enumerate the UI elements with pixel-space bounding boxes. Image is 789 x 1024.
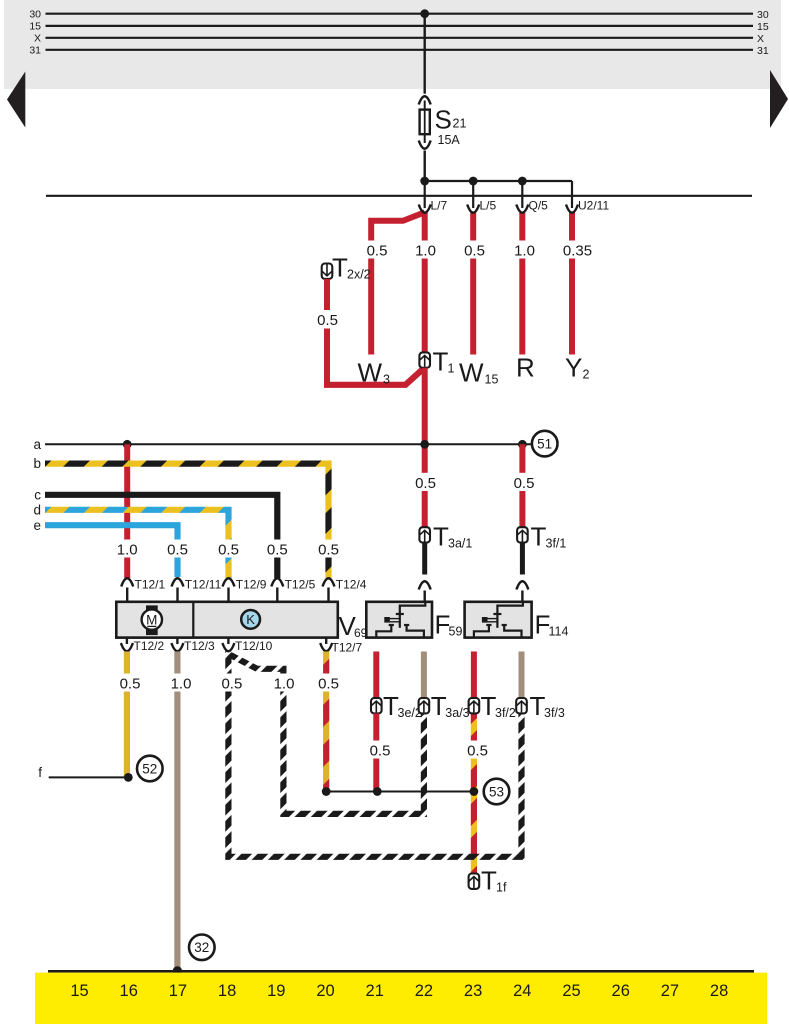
pin T12/5 [271,578,315,602]
pin T12/7 [320,638,362,655]
svg-text:0.5: 0.5 [514,475,535,492]
svg-text:0.5: 0.5 [318,542,339,559]
node ref 52 [137,756,163,782]
svg-text:0.5: 0.5 [317,312,338,329]
track band [35,973,767,1024]
label 0.5 T3f/2 [464,741,489,760]
svg-text:31: 31 [757,45,769,57]
wire red F59 to T3e/2 [373,652,379,699]
node a rail [33,437,531,452]
wire black T3f/1 to F114 [516,543,528,602]
connector T3f/1 [517,522,566,552]
svg-text:M: M [146,612,157,627]
wire red 0.5 node a to T3f/1 [519,444,525,527]
component W3 [358,358,391,388]
label 0.5 d [216,540,241,559]
label 0.5 T12/10 [218,674,243,693]
svg-text:U2/11: U2/11 [578,199,609,213]
svg-text:0.5: 0.5 [370,742,391,759]
svg-text:15A: 15A [438,133,461,147]
power rail band [4,0,781,89]
pin U2/11 [566,196,609,213]
svg-text:c: c [34,487,41,502]
svg-text:1.0: 1.0 [514,242,535,259]
wire red 0.5 T1 to T3a/1 [422,368,428,527]
svg-text:T12/2: T12/2 [134,639,165,653]
svg-text:0.5: 0.5 [267,542,288,559]
output transistor F114 [465,602,569,640]
svg-text:23: 23 [464,982,482,1000]
svg-text:T12/4: T12/4 [336,578,367,592]
svg-text:3f/2: 3f/2 [495,706,516,720]
output transistor F59 [366,602,462,640]
svg-text:0.5: 0.5 [467,742,488,759]
svg-text:3f/1: 3f/1 [546,537,567,551]
pin T12/11 [172,578,222,602]
pin L/7 [419,196,448,213]
wire red 1.0 node a to T12/1 [124,444,130,578]
wire c black [45,495,277,578]
svg-text:24: 24 [513,982,531,1000]
svg-text:21: 21 [366,982,384,1000]
svg-text:T12/3: T12/3 [184,639,215,653]
label 0.35 Y2 [562,241,593,260]
label 0.5 T12/2 [116,674,141,693]
connector T3a/3 [419,691,470,721]
svg-text:W: W [459,358,484,388]
connector T1 [419,347,454,377]
wire black-white 1.0 T12/10 to T3a/3 [228,651,424,814]
wire red 0.35 Y2 [569,212,575,355]
pin T12/2 [121,638,165,653]
connector T3e/2 [371,691,422,721]
svg-text:K: K [246,612,255,627]
bus 30 [29,9,769,22]
wire red 1.0 L/7 to T1 [422,212,428,353]
svg-text:T: T [332,253,348,283]
svg-text:0.5: 0.5 [415,475,436,492]
wire b black-yellow [45,464,329,578]
svg-text:59: 59 [449,625,463,639]
bus 31 [29,45,769,58]
label 1.0 [115,540,140,559]
svg-text:L/7: L/7 [431,199,448,213]
fuse S21 15A [419,96,467,181]
node ref 51 [532,431,558,457]
wire black T3a/1 to F59 [419,543,431,602]
svg-text:3a/3: 3a/3 [445,706,469,720]
svg-text:1: 1 [448,362,455,376]
svg-text:0.5: 0.5 [367,242,388,259]
svg-text:52: 52 [142,761,157,776]
svg-text:1f: 1f [496,881,507,895]
connector T3f/3 [516,691,565,721]
label 0.5 T12/7 [315,674,340,693]
svg-text:30: 30 [757,9,769,21]
svg-text:T12/9: T12/9 [236,578,267,592]
svg-text:26: 26 [612,982,630,1000]
svg-text:b: b [33,456,41,471]
pin T12/3 [171,638,215,653]
right continuation arrow [770,70,788,128]
wire red 0.5 T3e/2 down [373,713,379,791]
pin L/5 [467,196,496,213]
svg-text:1.0: 1.0 [117,542,138,559]
pin Q/5 [516,196,548,213]
svg-text:d: d [33,502,41,517]
svg-text:3a/1: 3a/1 [448,537,472,551]
svg-text:19: 19 [267,982,285,1000]
svg-text:T: T [433,522,449,552]
svg-text:0.5: 0.5 [221,675,242,692]
ground rail line [48,970,754,973]
svg-text:e: e [33,518,41,533]
svg-text:0.5: 0.5 [167,542,188,559]
connector T3a/1 [419,522,472,552]
connector T1f [469,866,507,896]
svg-text:20: 20 [316,982,334,1000]
label 0.5 e [165,540,190,559]
wire red 0.5 from T2x/2 [324,279,425,385]
svg-text:f: f [38,765,42,780]
pin T12/4 [323,578,367,602]
svg-text:T12/10: T12/10 [235,639,273,653]
node ref 32 [189,935,215,961]
svg-text:21: 21 [453,117,467,131]
svg-text:X: X [757,33,764,45]
svg-text:32: 32 [194,940,209,955]
svg-text:28: 28 [710,982,728,1000]
wire red-yellow T3f/2 to T1f [471,713,477,873]
connector T3f/2 [469,691,516,721]
svg-text:15: 15 [757,21,769,33]
wire red F114 to T3f/2 [471,652,477,699]
label 0.5 W15 [462,241,487,260]
svg-text:17: 17 [169,982,187,1000]
svg-text:T12/7: T12/7 [332,641,363,655]
pin T12/1 [121,578,165,602]
wire red 0.5 to W3 [371,212,425,354]
svg-text:1.0: 1.0 [415,242,436,259]
svg-text:Y: Y [565,353,582,383]
svg-text:R: R [516,353,535,383]
motor M symbol [142,605,162,635]
component Y2 [565,353,590,383]
svg-text:T12/1: T12/1 [135,578,166,592]
svg-text:3: 3 [383,373,390,387]
svg-text:51: 51 [537,436,552,451]
wire brown 1.0 T12/3 [174,652,180,971]
label 0.5 c [265,540,290,559]
svg-text:3f/3: 3f/3 [544,706,565,720]
wire from bus 30 to fuse [420,9,429,94]
wire d blue-yellow [45,510,229,578]
wire brown F59 to T3a/3 [421,652,427,699]
svg-text:2x/2: 2x/2 [347,268,371,282]
svg-text:0.5: 0.5 [464,242,485,259]
relay K symbol [241,610,260,629]
svg-text:T: T [433,347,449,377]
bus X [34,33,764,46]
svg-text:0.35: 0.35 [563,242,592,259]
left continuation arrow [7,72,25,128]
svg-text:T12/11: T12/11 [185,578,222,592]
svg-text:1.0: 1.0 [274,675,295,692]
label 0.5 T3e/2 [366,741,391,760]
svg-text:0.5: 0.5 [318,675,339,692]
svg-text:16: 16 [120,982,138,1000]
pin T12/9 [223,578,267,602]
label 1.0 T12/3 [167,674,192,693]
label 0.5 W3 [365,241,390,260]
label 0.5 [413,473,438,492]
svg-text:L/5: L/5 [480,199,497,213]
label 1.0 T12/10b [272,674,297,693]
svg-text:15: 15 [70,982,88,1000]
horizontal feed line [46,195,752,197]
label 0.5 [511,473,536,492]
wire black-white 0.5 T12/10 to T3f/3 [228,652,521,857]
svg-text:2: 2 [583,368,590,382]
node ref 53 [484,779,510,805]
wire red 0.5 W15 [470,212,476,355]
svg-text:W: W [358,358,383,388]
track numbers [70,982,728,1000]
svg-text:31: 31 [29,45,41,57]
label 0.5 b [316,540,341,559]
node f rail [38,765,132,782]
svg-text:114: 114 [549,625,569,639]
svg-text:a: a [33,437,41,452]
component W15 [459,358,498,388]
svg-text:53: 53 [489,784,504,799]
distribution node line [420,177,572,196]
svg-text:T12/5: T12/5 [285,578,316,592]
svg-text:Q/5: Q/5 [529,199,549,213]
svg-text:1.0: 1.0 [171,675,192,692]
label 1.0 R [512,241,537,260]
svg-text:T: T [531,522,547,552]
connector T2x/2 [322,253,371,283]
svg-text:22: 22 [415,982,433,1000]
wire brown F114 to T3f/3 [519,652,525,699]
ground dot 32 [173,966,182,975]
svg-text:18: 18 [218,982,236,1000]
label 0.5 T2x2 [315,310,340,329]
svg-text:S: S [435,105,452,135]
wire red-yellow 0.5 T12/7 [323,652,329,792]
svg-text:25: 25 [562,982,580,1000]
svg-text:0.5: 0.5 [120,675,141,692]
svg-text:T: T [481,866,497,896]
control unit V69 [116,602,367,641]
wire e blue [45,525,178,577]
svg-text:30: 30 [29,9,41,21]
wire yellow 0.5 T12/2 [124,652,130,778]
svg-text:0.5: 0.5 [218,542,239,559]
svg-text:15: 15 [485,373,499,387]
svg-text:27: 27 [661,982,679,1000]
wire red 1.0 R [519,212,525,355]
label 1.0 L/7 [413,241,438,260]
svg-text:X: X [34,33,41,45]
svg-text:15: 15 [29,21,41,33]
pin T12/10 [222,638,272,653]
node line 53 [322,787,478,796]
bus 15 [29,21,769,34]
